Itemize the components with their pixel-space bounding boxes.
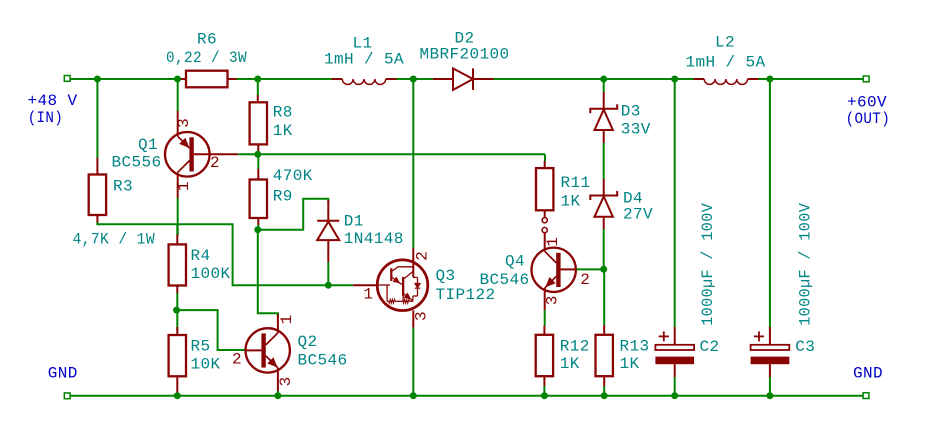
svg-text:R5: R5	[191, 338, 211, 356]
svg-text:MBRF20100: MBRF20100	[420, 45, 510, 63]
svg-text:Q3: Q3	[436, 267, 456, 285]
svg-text:L2: L2	[715, 34, 735, 52]
svg-text:470K: 470K	[273, 167, 313, 185]
svg-text:1mH / 5A: 1mH / 5A	[324, 51, 404, 69]
svg-text:33V: 33V	[621, 120, 651, 138]
svg-text:3: 3	[277, 376, 295, 386]
svg-text:4,7K / 1W: 4,7K / 1W	[73, 231, 156, 249]
svg-text:1: 1	[175, 181, 193, 191]
svg-text:1K: 1K	[560, 355, 580, 373]
svg-text:R3: R3	[113, 178, 133, 196]
svg-text:1: 1	[363, 285, 373, 303]
svg-text:GND: GND	[853, 365, 883, 383]
svg-text:100K: 100K	[191, 265, 231, 283]
svg-text:R11: R11	[561, 174, 591, 192]
svg-text:2: 2	[210, 154, 220, 172]
svg-text:C3: C3	[795, 338, 815, 356]
svg-text:1: 1	[278, 314, 296, 324]
svg-text:1000µF / 100V: 1000µF / 100V	[796, 203, 814, 326]
svg-text:+48 V: +48 V	[28, 92, 78, 110]
svg-text:10K: 10K	[191, 356, 221, 374]
svg-text:C2: C2	[700, 338, 720, 356]
svg-text:1: 1	[544, 237, 562, 247]
svg-text:2: 2	[580, 271, 590, 289]
svg-text:Q4: Q4	[505, 252, 525, 270]
svg-text:Q1: Q1	[138, 136, 158, 154]
svg-text:1000µF / 100V: 1000µF / 100V	[699, 203, 717, 326]
svg-text:BC556: BC556	[112, 154, 162, 172]
svg-text:2: 2	[232, 350, 242, 368]
svg-text:R9: R9	[273, 187, 293, 205]
svg-text:D1: D1	[344, 212, 364, 230]
svg-text:BC546: BC546	[480, 271, 530, 289]
svg-text:GND: GND	[48, 365, 78, 383]
svg-text:27V: 27V	[623, 206, 653, 224]
svg-text:R6: R6	[197, 31, 217, 49]
svg-text:2: 2	[414, 251, 432, 261]
svg-text:R4: R4	[191, 247, 211, 265]
svg-text:1mH / 5A: 1mH / 5A	[686, 53, 766, 71]
svg-text:1K: 1K	[273, 122, 293, 140]
svg-text:R12: R12	[560, 338, 590, 356]
svg-text:(OUT): (OUT)	[846, 110, 891, 128]
svg-text:1N4148: 1N4148	[344, 230, 404, 248]
svg-text:BC546: BC546	[298, 352, 348, 370]
svg-text:Q2: Q2	[298, 333, 318, 351]
svg-text:1K: 1K	[620, 355, 640, 373]
svg-text:3: 3	[413, 311, 431, 321]
svg-text:3: 3	[543, 295, 561, 305]
svg-text:(IN): (IN)	[28, 109, 64, 127]
svg-text:D3: D3	[621, 102, 641, 120]
svg-text:R13: R13	[620, 338, 650, 356]
svg-text:0,22 / 3W: 0,22 / 3W	[166, 49, 247, 67]
svg-text:1K: 1K	[561, 192, 581, 210]
svg-text:R8: R8	[273, 103, 293, 121]
svg-text:3: 3	[175, 118, 193, 128]
